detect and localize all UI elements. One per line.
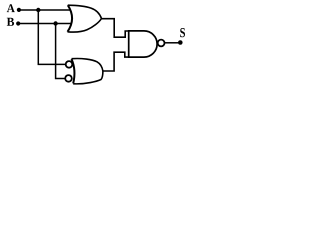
junction on B wire — [53, 21, 57, 25]
wire OR2 output stepping up to NAND bottom input — [103, 52, 129, 71]
or-gate OR1 — [68, 5, 102, 32]
node B dot — [16, 21, 20, 25]
nand gate body — [129, 31, 157, 57]
node S dot — [178, 40, 183, 45]
or-gate OR2 with inverted inputs — [72, 59, 103, 84]
output label S — [180, 28, 185, 37]
OR2 upper input bubble — [66, 61, 73, 68]
wire from A junction down to OR2 upper input bubble — [38, 10, 66, 64]
junction on A wire — [36, 8, 40, 12]
OR2 lower input bubble — [65, 75, 72, 82]
node A dot — [17, 8, 21, 12]
wire A to OR1 top input — [19, 9, 71, 11]
wire from B junction down to OR2 lower input bubble — [56, 24, 66, 79]
input label B — [7, 18, 14, 26]
wire B to OR1 bottom input — [18, 23, 70, 25]
wire NAND output to node S — [165, 42, 179, 44]
input label A — [7, 4, 15, 12]
nand output bubble — [158, 40, 165, 47]
wire OR1 output stepping down to NAND top input — [102, 19, 129, 38]
